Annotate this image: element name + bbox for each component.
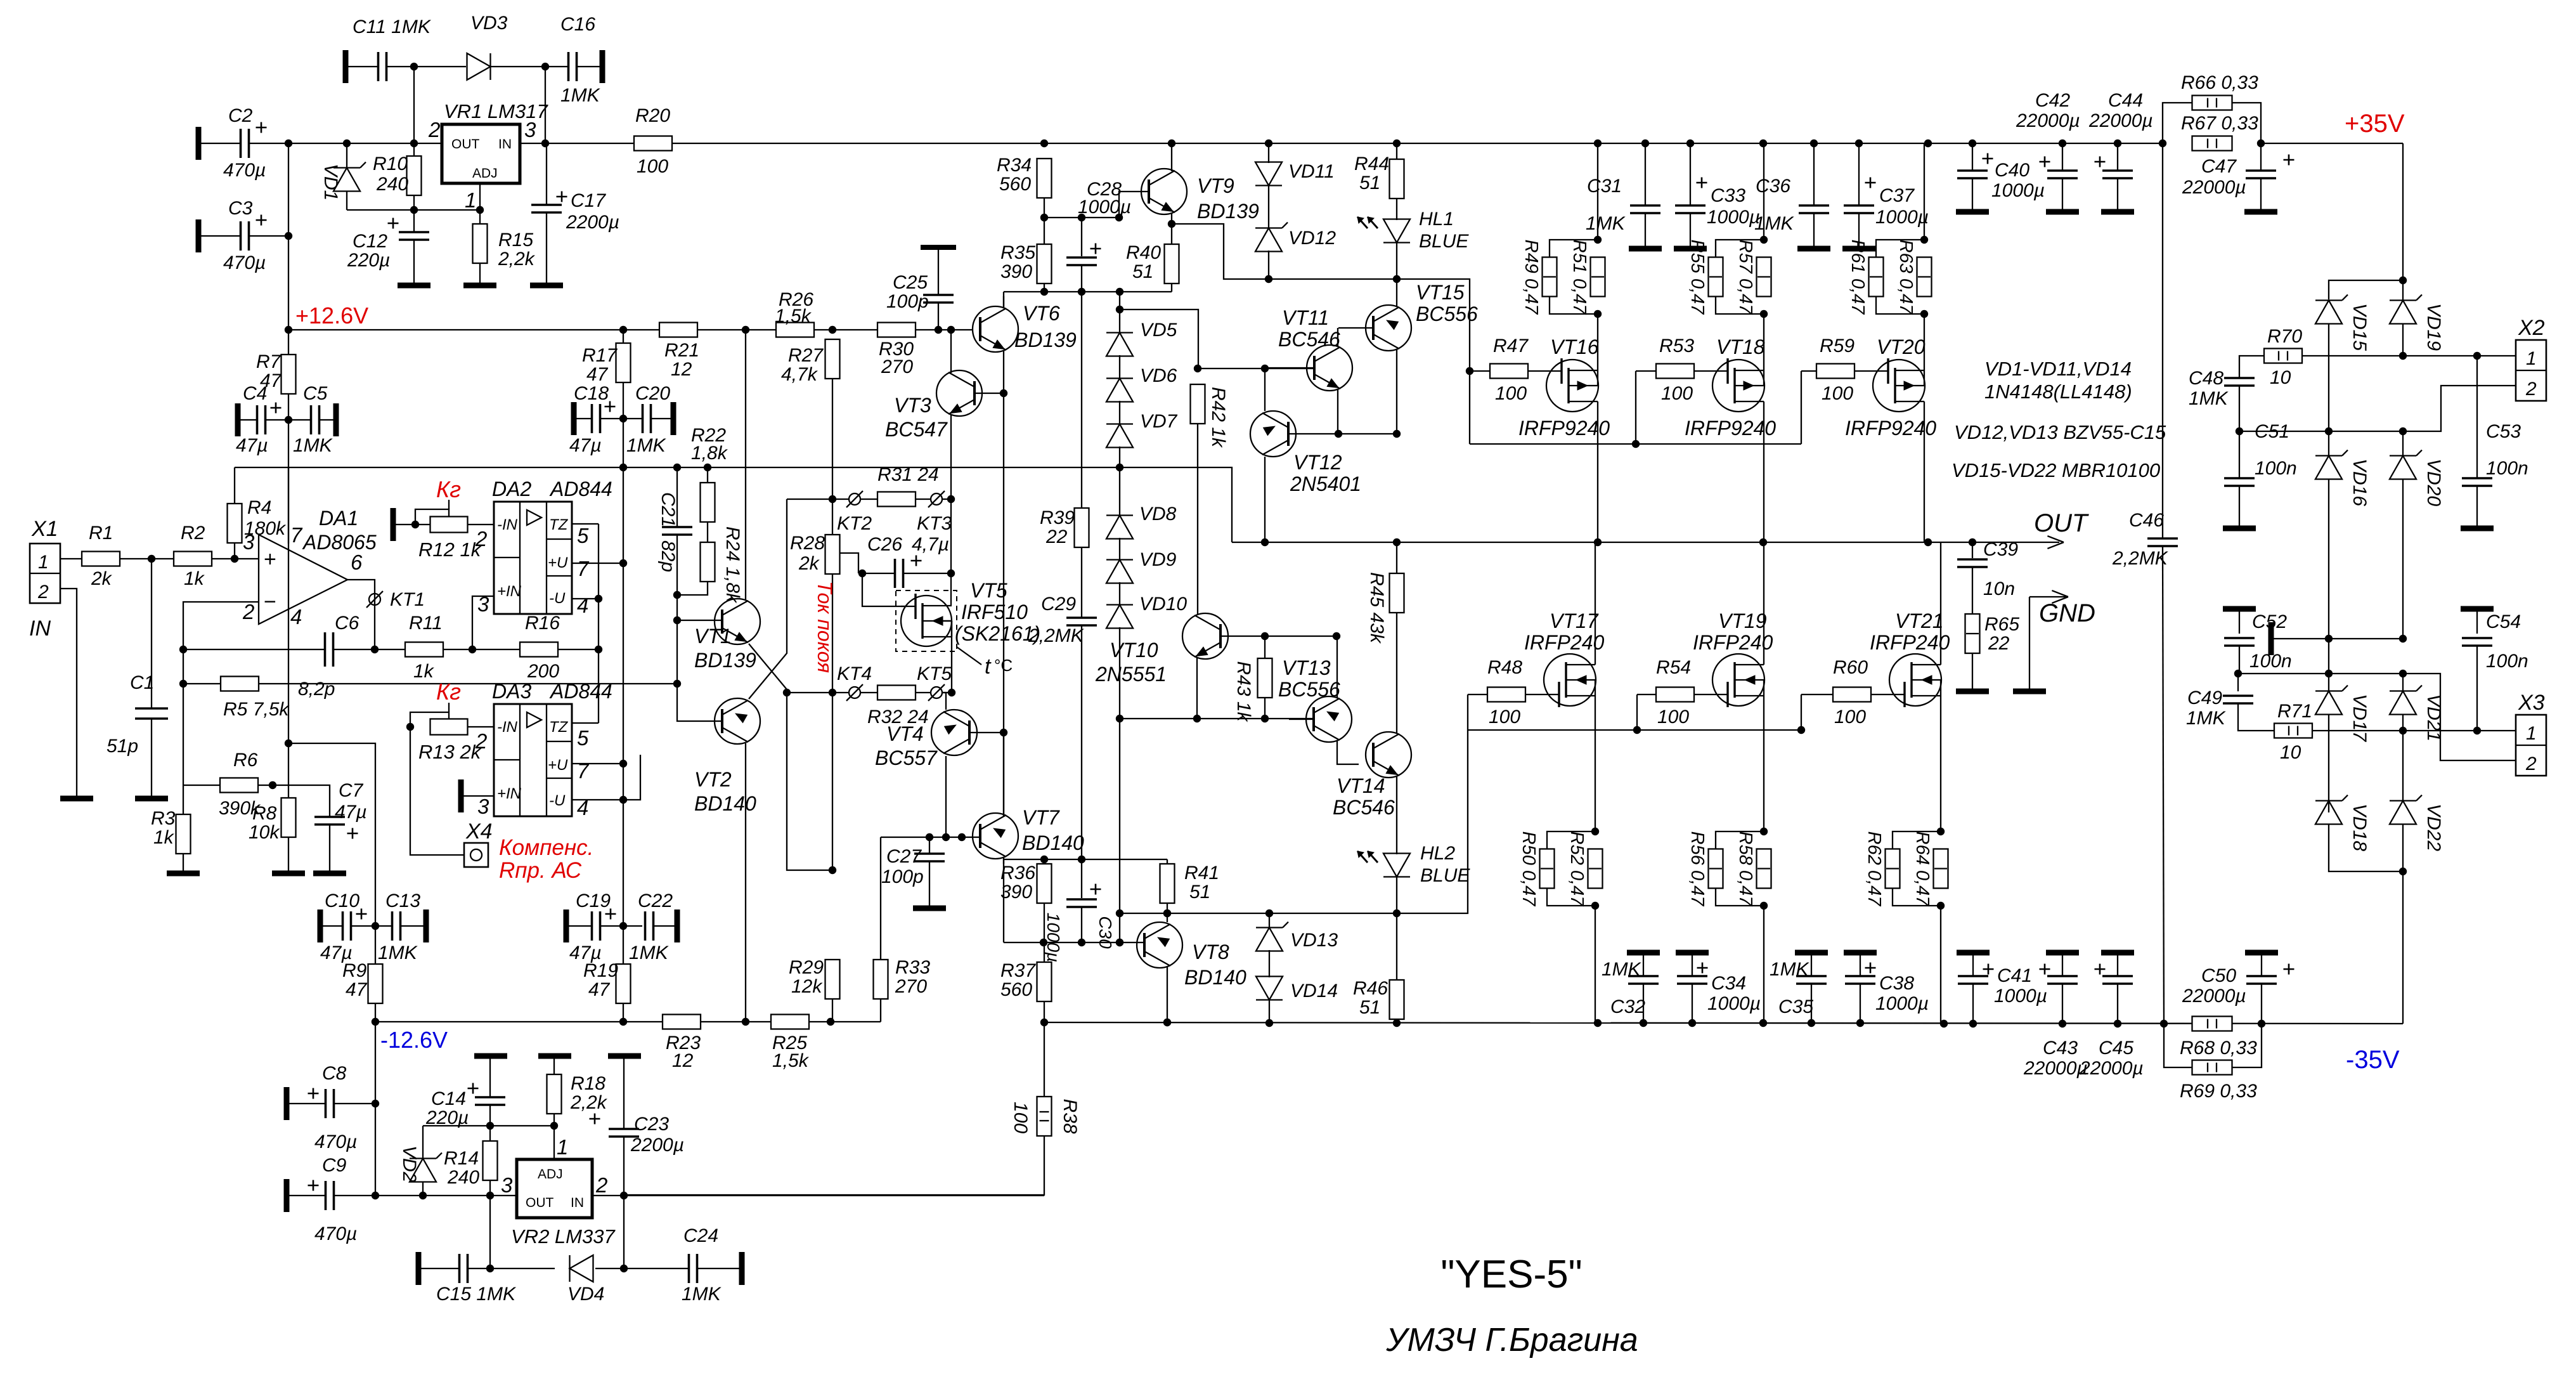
wire VT17 pair rail: [1595, 906, 1596, 1023]
wire VD6-VD7: [1119, 401, 1120, 425]
wire R3 top: [183, 785, 184, 814]
svg-text:R3: R3: [151, 808, 176, 829]
resistor R17: [616, 343, 631, 382]
label C45 value: [2079, 1058, 2144, 1079]
plus C10: [356, 909, 367, 920]
plus C3: [256, 215, 267, 226]
label R38 value: [1010, 1102, 1031, 1133]
terminal C5 right: [333, 403, 339, 436]
wire C38 top: [1860, 955, 1861, 976]
plus C28: [1091, 244, 1101, 254]
label C3 value: [223, 252, 266, 273]
svg-text:C33: C33: [1711, 185, 1745, 206]
connector X3: [2516, 691, 2546, 776]
plus C33: [1697, 178, 1707, 188]
resistor R1: [82, 552, 120, 566]
plus C47: [2284, 155, 2294, 166]
wire C19-C22: [600, 925, 642, 927]
svg-text:TZ: TZ: [549, 516, 569, 533]
wire R44-HL1: [1396, 199, 1397, 220]
svg-text:VD18: VD18: [2349, 804, 2370, 851]
svg-text:22: 22: [1045, 526, 1068, 547]
capacitor C46: [2147, 538, 2178, 546]
label R29 value: [791, 976, 823, 997]
junction VD tap: [1116, 306, 1123, 313]
transistor VT10: [1182, 613, 1228, 659]
svg-text:VD14: VD14: [1290, 981, 1338, 1001]
svg-text:R40: R40: [1126, 242, 1161, 263]
svg-text:C16: C16: [560, 14, 595, 35]
label C4 value: [236, 435, 268, 456]
wire X4: [410, 727, 464, 855]
capacitor C12: [399, 232, 429, 240]
svg-text:VT10: VT10: [1110, 639, 1158, 662]
svg-text:C15 1MK: C15 1MK: [436, 1284, 517, 1305]
wire KT4-R32: [860, 692, 877, 693]
label C19: [576, 890, 611, 911]
wire R40 top: [1171, 224, 1172, 244]
junction R13: [406, 723, 414, 731]
svg-text:R68 0,33: R68 0,33: [2180, 1038, 2257, 1059]
plus C50: [2284, 964, 2294, 975]
svg-text:C39: C39: [1983, 539, 2018, 560]
wire C18 left: [574, 418, 592, 419]
wire R53 lead: [1636, 370, 1694, 372]
wire R16 right: [558, 649, 599, 650]
label C20: [635, 383, 670, 404]
resistor R71: [2274, 724, 2312, 738]
wire C22 right: [654, 925, 677, 927]
wire R42 bottom: [1197, 424, 1198, 614]
gate bus top: [1470, 443, 1801, 445]
wire VD11-VD12: [1268, 185, 1269, 229]
svg-text:IRFP9240: IRFP9240: [1845, 417, 1936, 440]
test point KT1: [366, 589, 425, 610]
label C1: [130, 672, 154, 693]
label R62: [1864, 831, 1884, 908]
terminal C3 left: [196, 219, 202, 252]
junctions pair VT21: [1937, 828, 1945, 909]
wire C39 top: [1972, 542, 1973, 558]
label R10: [373, 153, 408, 174]
label VT15 type: [1416, 303, 1478, 325]
label VT10 type: [1095, 663, 1167, 686]
wire VT10 emitter: [1196, 657, 1198, 719]
svg-text:+35V: +35V: [2345, 110, 2405, 138]
junctions row1133: [1261, 715, 1269, 722]
label C7 value: [335, 802, 367, 823]
label R65 value: [1988, 633, 2010, 654]
resistor R21: [659, 323, 697, 337]
wire VT15 base: [1338, 327, 1373, 329]
svg-text:1MK: 1MK: [2189, 388, 2229, 409]
wire R54 lead: [1637, 694, 1694, 695]
transistor VT2: [715, 698, 760, 744]
label VD8: [1139, 504, 1177, 525]
svg-text:270: 270: [895, 976, 927, 997]
label R38: [1059, 1098, 1080, 1133]
svg-text:C18: C18: [574, 383, 609, 404]
svg-text:3: 3: [501, 1173, 513, 1197]
wire VD5-VD6: [1119, 355, 1120, 379]
svg-text:BC556: BC556: [1278, 678, 1340, 701]
wire pair VT17: [1547, 831, 1595, 906]
ground C40: [1956, 209, 1989, 215]
svg-text:R15: R15: [498, 230, 533, 251]
tick R55: [1709, 276, 1722, 277]
label R6 value: [219, 798, 261, 819]
label R41: [1184, 863, 1219, 883]
wire R15 top: [479, 210, 481, 225]
label C44 value: [2088, 110, 2153, 131]
zener VD16: [2315, 450, 2348, 479]
label R15 value: [498, 249, 536, 270]
terminal C54: [2461, 606, 2494, 612]
wire C40 bottom: [1972, 178, 1973, 211]
wire C46 column bottom: [2163, 546, 2164, 1024]
svg-text:VD20: VD20: [2423, 459, 2444, 506]
label VT18: [1716, 336, 1765, 358]
label R56: [1687, 831, 1707, 908]
wire VT16 source up: [1597, 314, 1598, 370]
label C50: [2201, 965, 2236, 986]
svg-text:1000µ: 1000µ: [1875, 207, 1929, 228]
diode VD11: [1255, 162, 1282, 186]
label VT17: [1550, 610, 1599, 632]
label C31 value: [1586, 213, 1626, 234]
wire C4C5 down: [288, 420, 289, 544]
zener VD17: [2315, 686, 2348, 715]
ground C17: [530, 283, 563, 289]
capacitor C47: [2246, 171, 2276, 178]
wire ADJ2: [553, 1126, 555, 1159]
svg-text:C10: C10: [325, 890, 359, 911]
svg-text:(SK2161): (SK2161): [955, 622, 1040, 645]
wire VD18 bottom: [2329, 824, 2403, 871]
wire fb row b: [333, 649, 405, 650]
junctions C25 VT3coll: [935, 326, 955, 334]
svg-text:R36: R36: [1000, 863, 1035, 883]
transistor VT15: [1366, 305, 1411, 351]
stub DA3 -U: [623, 755, 640, 800]
svg-text:УМЗЧ Г.Брагина: УМЗЧ Г.Брагина: [1385, 1322, 1638, 1359]
rail -12.6V: [375, 1021, 663, 1022]
svg-text:R57 0,47: R57 0,47: [1735, 240, 1756, 316]
wire VD2 top: [422, 1126, 424, 1159]
tick R58: [1757, 868, 1770, 869]
wire VT18 source up: [1763, 314, 1764, 370]
IC DA3 AD844: [475, 680, 612, 819]
resistor R4: [228, 504, 242, 543]
svg-text:X4: X4: [465, 819, 493, 844]
ground C31: [1629, 246, 1662, 252]
wire KT5 right: [942, 692, 952, 693]
wire VD3-C16: [491, 66, 569, 67]
svg-text:1000µ: 1000µ: [1875, 993, 1929, 1014]
label Rpr: [499, 858, 582, 883]
capacitor C7: [314, 817, 345, 825]
resistor R2: [174, 552, 212, 566]
label R42: [1208, 387, 1229, 448]
resistor R7: [282, 355, 296, 394]
capacitor C10: [343, 911, 351, 941]
label VT19: [1718, 610, 1767, 632]
svg-text:47µ: 47µ: [236, 435, 268, 456]
svg-text:VD10: VD10: [1139, 594, 1187, 615]
label tC: [957, 647, 1013, 679]
wire C24 right: [697, 1268, 742, 1269]
ground C53: [2461, 526, 2494, 531]
label C25: [893, 272, 928, 293]
junction KT4 row: [783, 689, 791, 696]
diode VD5: [1106, 333, 1133, 356]
capacitor C20: [643, 404, 651, 433]
wire R36 bottom: [1044, 903, 1045, 942]
label C10: [325, 890, 359, 911]
svg-text:VT7: VT7: [1022, 806, 1060, 829]
svg-text:OUT: OUT: [451, 137, 480, 152]
label R43: [1233, 661, 1254, 722]
ground R15: [463, 283, 496, 289]
label R70 value: [2270, 367, 2291, 388]
svg-text:C8: C8: [322, 1063, 347, 1084]
junctions row1355: [1040, 856, 1085, 863]
plus C42: [2040, 157, 2050, 167]
wire HL1 bottom: [1396, 242, 1397, 279]
wire VT20 source up: [1924, 314, 1925, 370]
transistor VT13: [1306, 696, 1352, 742]
junction C18C20: [619, 415, 627, 422]
svg-text:KT5: KT5: [917, 663, 952, 684]
svg-text:C42: C42: [2035, 90, 2070, 111]
svg-text:2N5551: 2N5551: [1095, 663, 1167, 686]
svg-text:C32: C32: [1610, 996, 1645, 1017]
svg-text:R35: R35: [1000, 242, 1035, 263]
mosfet VT5: [901, 594, 952, 646]
svg-text:22000µ: 22000µ: [2023, 1058, 2088, 1079]
svg-text:C38: C38: [1879, 973, 1914, 994]
svg-text:R10: R10: [373, 153, 408, 174]
capacitor C38: [1845, 976, 1875, 984]
wire DA1 out: [347, 580, 375, 649]
label R32: [867, 707, 929, 727]
junction R29 top: [829, 866, 836, 874]
label C33 value: [1707, 207, 1760, 228]
label VT6 type: [1014, 329, 1077, 351]
label VT7 type: [1022, 831, 1084, 854]
wire C4-C5: [266, 419, 311, 420]
junction VT8 coll rail: [1163, 1019, 1171, 1026]
label R30 value: [881, 356, 913, 377]
wire VD19 bottom: [2402, 323, 2404, 356]
svg-text:R47: R47: [1493, 336, 1529, 356]
svg-text:1: 1: [557, 1135, 568, 1159]
tick R63: [1918, 276, 1931, 277]
junction R12: [411, 521, 419, 528]
label VD17: [2349, 694, 2370, 742]
potentiometer R13: [430, 719, 468, 735]
arrow GND: [2029, 590, 2095, 689]
svg-text:C43: C43: [2043, 1038, 2078, 1059]
label C38: [1879, 973, 1914, 994]
label R39 value: [1045, 526, 1068, 547]
wire C39-R65: [1972, 567, 1973, 613]
junction VD19 top: [2399, 277, 2407, 284]
label C30 value: [1044, 913, 1063, 962]
svg-text:VT6: VT6: [1023, 302, 1060, 325]
wire C21 col: [676, 467, 678, 528]
transistor VT9: [1141, 169, 1187, 214]
label C47 value: [2182, 177, 2246, 198]
wire VT7 emitter: [1003, 736, 1004, 816]
label VD15: [2349, 303, 2370, 351]
svg-text:10: 10: [2270, 367, 2291, 388]
wire C47 bottom: [2260, 178, 2262, 211]
label VD14: [1290, 981, 1338, 1001]
label C21: [657, 492, 678, 527]
label R44: [1354, 153, 1389, 174]
plus C26: [911, 556, 922, 566]
label C47: [2201, 156, 2237, 177]
wire: [198, 143, 442, 144]
svg-text:IRFP240: IRFP240: [1693, 631, 1773, 654]
plus C41: [1983, 964, 1994, 975]
junction row737: [619, 464, 1123, 471]
svg-text:OUT: OUT: [2034, 509, 2089, 537]
label C14 value: [425, 1107, 469, 1128]
label +35V: [2345, 110, 2405, 138]
wire VD17 bottom: [2328, 714, 2329, 812]
svg-text:C31: C31: [1587, 176, 1622, 197]
zener VD12: [1255, 223, 1288, 252]
label R18 value: [570, 1092, 608, 1113]
label C3: [228, 198, 253, 219]
wire VT14 emitter: [1396, 776, 1397, 854]
junctions row1440: [1163, 909, 1401, 917]
wire C40 top: [1972, 143, 1973, 170]
label C53 value: [2486, 458, 2528, 479]
svg-text:R71: R71: [2277, 701, 2312, 722]
wire VT3 emitter: [950, 414, 952, 573]
capacitor C44: [2102, 171, 2133, 178]
gate bus bottom: [1468, 729, 1801, 731]
ground R3: [167, 871, 200, 877]
svg-text:R69 0,33: R69 0,33: [2180, 1081, 2257, 1102]
capacitor C11: [379, 52, 387, 81]
label R9 value: [346, 979, 368, 1000]
wire DA2 -U: [572, 598, 599, 599]
svg-text:R8: R8: [252, 803, 277, 824]
wire HL2 bottom: [1396, 877, 1397, 913]
terminal C41: [1957, 950, 1990, 956]
label R36: [1000, 863, 1035, 883]
label C29 value: [1028, 625, 1085, 646]
svg-text:2,2MK: 2,2MK: [2112, 548, 2169, 569]
label C17 value: [566, 212, 619, 233]
transistor VT4: [931, 710, 977, 755]
svg-text:3: 3: [524, 118, 536, 141]
wire VT21 drain up: [1940, 542, 1941, 665]
svg-text:R12 1k: R12 1k: [418, 538, 482, 561]
terminal C38: [1844, 950, 1877, 956]
label R4: [247, 497, 271, 518]
junction C24: [620, 1265, 628, 1272]
wire VT12 emitter: [1264, 368, 1265, 411]
label R27: [788, 345, 824, 366]
wire VD16 top: [2328, 431, 2329, 456]
diode VD6: [1106, 379, 1133, 402]
label C14: [431, 1088, 466, 1109]
tick R49: [1543, 276, 1556, 277]
svg-text:R65: R65: [1984, 614, 2019, 635]
junction +12.6 left: [285, 326, 292, 334]
svg-text:IRFP9240: IRFP9240: [1685, 417, 1776, 440]
label C31: [1587, 176, 1622, 197]
label VD3: [470, 13, 508, 34]
junction C10C13: [372, 922, 379, 930]
label C46 value: [2112, 548, 2169, 569]
tick R65: [1966, 633, 1979, 634]
capacitor C5: [311, 405, 320, 434]
label C51: [2255, 421, 2289, 442]
svg-text:VD16: VD16: [2349, 459, 2370, 506]
label HL2 type: [1420, 865, 1470, 886]
label R7 value: [260, 370, 282, 391]
test point KT4: [837, 663, 872, 701]
wire C13 right: [401, 925, 426, 927]
svg-text:100: 100: [1834, 707, 1866, 727]
wire R9 top: [375, 926, 376, 964]
wire R35 bottom: [1044, 284, 1045, 292]
wire VD10 bottom: [1119, 627, 1120, 942]
svg-text:47: 47: [586, 364, 609, 385]
wire VD4 left: [490, 1268, 555, 1269]
label R35 value: [1000, 261, 1032, 282]
svg-text:R63 0,47: R63 0,47: [1896, 240, 1916, 316]
ground C47: [2244, 209, 2277, 215]
wire R28 bottom: [832, 575, 833, 870]
junctions row1062: [2325, 670, 2407, 677]
svg-text:VD6: VD6: [1140, 365, 1177, 386]
wire VD21 top: [2402, 674, 2404, 691]
junction R47 gate: [1466, 367, 1473, 375]
capacitor C36: [1799, 205, 1829, 213]
svg-text:C48: C48: [2189, 368, 2223, 389]
wire VT10 base: [1220, 636, 1337, 637]
svg-text:"YES-5": "YES-5": [1440, 1253, 1582, 1296]
label R16: [525, 613, 560, 634]
wire R35 top: [1044, 218, 1045, 244]
junctions row1775: [486, 1122, 558, 1130]
resistor R56 0,47: [1709, 849, 1723, 889]
resistor R63 0,47: [1917, 257, 1932, 297]
svg-text:IRFP9240: IRFP9240: [1518, 417, 1610, 440]
svg-text:VR2 LM337: VR2 LM337: [511, 1225, 616, 1248]
svg-text:-IN: -IN: [497, 719, 518, 736]
svg-text:22000µ: 22000µ: [2182, 177, 2246, 198]
wire row343: [1044, 217, 1119, 218]
label VD20: [2423, 459, 2444, 506]
label VD5: [1140, 320, 1177, 341]
wire col1583: [1003, 351, 1004, 816]
rail +12.6V: [288, 329, 659, 330]
wire DA3 -U: [572, 799, 623, 800]
label +12.6V: [295, 303, 368, 329]
regulator VR2 LM337: [501, 1135, 616, 1248]
label R13: [418, 741, 482, 763]
svg-text:R21: R21: [664, 340, 699, 361]
svg-text:100n: 100n: [2486, 651, 2528, 672]
